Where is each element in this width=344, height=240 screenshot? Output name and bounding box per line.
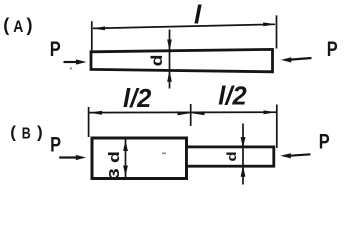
svg-text:l/2: l/2: [123, 85, 151, 113]
svg-text:d: d: [226, 151, 239, 161]
svg-text:): ): [37, 122, 43, 141]
svg-text:l: l: [194, 0, 202, 29]
svg-text:A: A: [13, 18, 23, 37]
svg-text:B: B: [22, 125, 31, 143]
svg-text:P: P: [50, 37, 61, 60]
svg-text:(: (: [3, 15, 9, 35]
svg-text:l/2: l/2: [218, 82, 246, 110]
svg-text:P: P: [50, 133, 61, 156]
svg-text:): ): [27, 15, 33, 35]
svg-text:(: (: [10, 123, 16, 142]
svg-text:P: P: [327, 37, 338, 60]
svg-text:d: d: [148, 55, 166, 67]
svg-text:P: P: [319, 130, 330, 153]
svg-text:3d: 3d: [105, 146, 122, 179]
